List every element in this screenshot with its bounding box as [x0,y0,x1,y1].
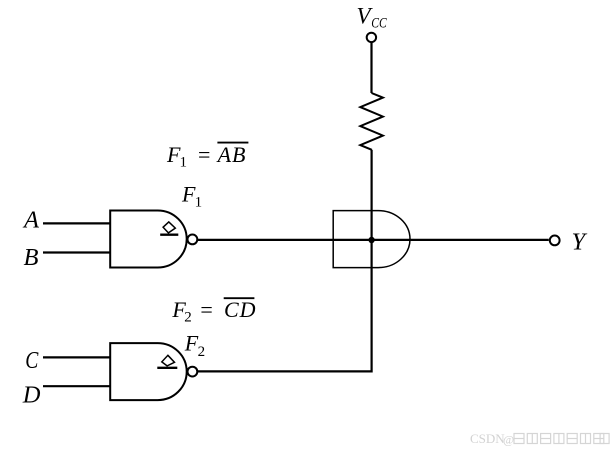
output bubble U1 [188,235,198,245]
svg-text:CD: CD [224,297,257,322]
NAND gate U1 body [110,211,187,268]
svg-text:AB: AB [216,142,247,167]
svg-text:D: D [22,381,41,408]
wire input D [43,385,110,387]
output bubble U2 [188,367,198,377]
svg-text:A: A [22,207,40,234]
label F2 [184,331,205,360]
resistor R1 [360,93,383,150]
wire input A [43,222,110,224]
label F1 [181,181,202,210]
equation F2 = CD-bar [171,297,256,326]
svg-text:1: 1 [180,155,188,171]
svg-text:C: C [25,346,38,374]
svg-text:CSDN: CSDN [470,431,505,446]
open-collector symbol U2 underline [157,367,177,369]
label Vcc [357,3,388,31]
svg-text:2: 2 [184,310,192,326]
wire Vcc to resistor R1 [370,43,372,93]
node junction dot [368,237,374,243]
svg-text:@: @ [503,433,514,447]
open-collector symbol U1 (diamond) [163,222,175,233]
wire resistor R1 to wired-AND node and down to F2 output [198,150,372,372]
watermark CJK characters (approximated) [514,434,609,444]
NAND gate U2 body [110,343,187,400]
equation F1 = AB-bar [166,142,248,171]
svg-text:=: = [200,297,212,322]
Vcc terminal [367,33,376,42]
svg-text:CC: CC [371,16,387,32]
svg-text:Y: Y [572,229,588,256]
svg-text:F: F [184,331,199,356]
wire F1 output to terminal Y [198,239,549,241]
svg-text:2: 2 [198,344,206,360]
wired-AND symbol [333,211,410,268]
wire input B [43,251,110,253]
open-collector symbol U1 underline [160,233,178,235]
wire input C [43,356,110,358]
svg-text:=: = [198,142,210,167]
open-collector symbol U2 (diamond) [162,355,175,366]
svg-text:B: B [24,244,39,271]
svg-text:1: 1 [195,194,203,210]
terminal Y circle [550,236,560,246]
watermark CSDN [470,431,514,447]
